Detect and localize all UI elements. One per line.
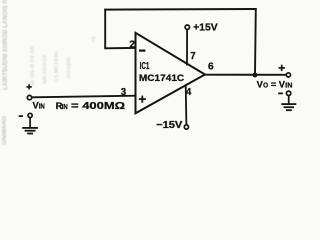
terminal -15V open circle [184,125,188,129]
wire: input minus terminal to ground [29,117,31,127]
op-amp U1 triangle body MC1741C [136,33,206,114]
wire: feedback top horizontal [104,8,256,11]
junction node: feedback taps output [253,73,258,78]
terminal VIN - open circle [28,113,32,117]
svg-text:=: = [271,79,277,90]
op-amp non-inverting input plus symbol [139,96,146,103]
svg-text:IN: IN [39,104,45,111]
svg-text:O: O [263,82,269,89]
svg-text:lqb-e1no1b: lqb-e1no1b [42,54,48,84]
wire: pin 2 horizontal segment [104,47,136,49]
terminal VO - open circle [286,91,290,95]
input plus polarity mark [26,84,31,89]
svg-text:C1-MC1E9b: C1-MC1E9b [54,51,60,82]
wire: feedback left vertical [104,9,106,49]
svg-text:+15V: +15V [193,23,218,34]
svg-text:GNIWARD: GNIWARD [2,115,8,145]
svg-text:=||: =|| [91,36,97,42]
output plus polarity mark [279,65,285,71]
svg-text:IC1: IC1 [140,61,150,72]
terminal VO + open circle [286,73,290,77]
svg-text:7: 7 [190,50,196,62]
svg-text:xb OS i0 O2 OS: xb OS i0 O2 OS [30,45,36,86]
wire: pin 4 supply vertical [185,84,188,125]
wire: output minus terminal to ground [288,96,290,104]
svg-text:le1oqeb: le1oqeb [66,57,72,78]
svg-text:LAIRTSUDNI AMROD LANOIS IV: LAIRTSUDNI AMROD LANOIS IV [3,0,9,90]
svg-text:−15V: −15V [156,120,183,131]
scan bleed-through artifact: left margin vertical text [2,0,9,145]
svg-text:6: 6 [208,61,214,72]
svg-text:= 400MΩ: = 400MΩ [71,101,125,112]
svg-text:IN: IN [62,104,68,111]
scan bleed-through artifact: mirrored text columns [30,36,97,86]
wire: output from pin 6 [204,74,286,76]
ground (output) [281,104,296,110]
wire: feedback right vertical [254,8,257,75]
terminal VIN + open circle [27,95,31,99]
svg-text:IN: IN [285,82,292,89]
op-amp inverting input minus symbol [139,49,145,51]
input minus polarity mark [19,115,23,117]
terminal +15V open circle [185,25,189,29]
ground (input) [22,128,38,134]
wire: pin 7 supply vertical [186,29,188,65]
svg-text:2: 2 [129,39,135,50]
output minus polarity mark [278,92,283,94]
svg-text:MC1741C: MC1741C [139,73,184,84]
wire: input to pin 3 [32,96,136,98]
